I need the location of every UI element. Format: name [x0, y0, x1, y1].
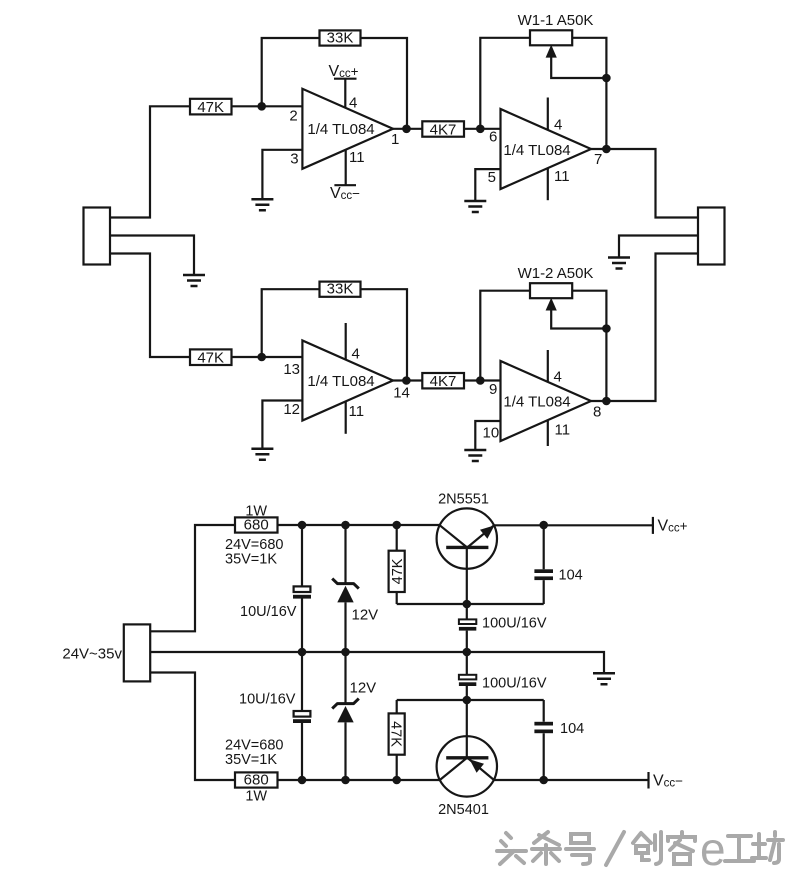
svg-text:1/4 TL084: 1/4 TL084 — [503, 394, 570, 411]
wire J3 mid pin ground rail — [150, 652, 604, 673]
svg-text:2N5551: 2N5551 — [438, 492, 489, 508]
svg-text:10U/16V: 10U/16V — [240, 604, 297, 620]
resistor R7 680 1W (positive rail) — [235, 517, 278, 534]
ground at J2 mid pin — [608, 258, 630, 269]
watermark slash — [606, 832, 624, 865]
capacitor C3 100U/16V upper — [459, 604, 476, 652]
connector J2 (right output jack) — [698, 208, 725, 265]
pin 4 stub U2B — [547, 350, 549, 382]
wire 4K7 to U1B pin6 — [464, 128, 501, 130]
zener D2 12V lower — [332, 652, 359, 780]
wire negative output rail — [494, 779, 648, 781]
wire base node line lower — [397, 699, 544, 701]
node output A — [402, 125, 411, 134]
svg-text:47K: 47K — [390, 558, 406, 584]
resistor R1 47K (channel A input) — [190, 99, 232, 116]
svg-text:9: 9 — [489, 381, 497, 398]
svg-text:4: 4 — [349, 95, 357, 112]
wire J2 pin mid to ground — [619, 236, 698, 258]
svg-text:7: 7 — [594, 151, 602, 168]
resistor R4 47K (channel B input) — [190, 349, 232, 366]
svg-text:47K: 47K — [388, 721, 404, 747]
watermark char hao — [566, 834, 594, 864]
node junction inverting input A — [257, 102, 266, 111]
svg-text:12: 12 — [283, 401, 300, 418]
svg-text:5: 5 — [488, 169, 496, 186]
op-amp U1A triangle 1/4 TL084 — [302, 89, 393, 169]
node wiper junction W1-1 — [602, 74, 611, 83]
watermark char fang — [752, 832, 783, 863]
Vcc+ supply symbol at U1A pin4 — [329, 63, 359, 108]
pin 11 stub U1B — [547, 168, 549, 200]
wire R4 to U2A pin13 — [232, 356, 303, 358]
node emitter Q2 output — [539, 776, 548, 785]
wire U2A output to 4K7 — [393, 379, 422, 381]
node wiper junction W1-2 — [602, 324, 611, 333]
terminal Vcc+ — [653, 517, 688, 535]
wire U2B pin10 to ground — [475, 421, 500, 450]
svg-text:10: 10 — [483, 425, 500, 442]
wire feedback up to 33K channel A — [262, 38, 320, 106]
op-amp U2B triangle 1/4 TL084 — [501, 361, 592, 441]
svg-text:11: 11 — [555, 422, 571, 439]
svg-text:2N5401: 2N5401 — [438, 802, 489, 818]
node base Q1 — [463, 600, 472, 609]
potentiometer W1-2 body — [530, 283, 572, 298]
svg-text:1/4 TL084: 1/4 TL084 — [503, 142, 570, 159]
terminal Vcc- — [649, 772, 684, 790]
pot W1-2 wiper arrow — [546, 298, 607, 329]
node junction inverting input U1B — [476, 125, 485, 134]
transistor Q1 2N5551 — [437, 508, 497, 604]
svg-text:2: 2 — [289, 108, 297, 125]
wire feedback up to pot W1-2 — [480, 291, 530, 381]
capacitor C2 104 upper — [534, 525, 553, 604]
wire 4K7 to U2B pin9 — [464, 379, 501, 381]
wire R1 to U1A pin2 — [232, 105, 303, 107]
svg-text:680: 680 — [244, 772, 269, 789]
node mid rail zener — [341, 648, 350, 657]
svg-text:47K: 47K — [197, 350, 224, 367]
svg-text:24V~35v: 24V~35v — [62, 646, 122, 663]
svg-text:4: 4 — [352, 346, 360, 363]
svg-text:104: 104 — [559, 568, 583, 584]
node mid rail 10U — [298, 648, 307, 657]
wire J3 top pin to R 680 upper — [150, 525, 235, 631]
svg-text:33K: 33K — [327, 29, 354, 46]
node zener upper tap — [341, 521, 350, 530]
svg-text:13: 13 — [283, 361, 300, 378]
svg-text:100U/16V: 100U/16V — [482, 616, 547, 632]
wire J1 pin top to R 47K channel A — [110, 106, 190, 217]
wire feedback up to pot W1-1 — [480, 38, 530, 129]
wire feedback up to 33K channel B — [262, 289, 320, 357]
svg-text:14: 14 — [393, 385, 410, 402]
op-amp U2A triangle 1/4 TL084 — [302, 341, 393, 421]
svg-text:11: 11 — [349, 149, 365, 166]
ground at mid rail — [593, 673, 615, 684]
wire 33K to output node A — [361, 38, 408, 129]
watermark char tou — [497, 833, 526, 864]
svg-text:11: 11 — [349, 403, 365, 420]
svg-text:1: 1 — [391, 131, 399, 148]
node 10U lower tap — [298, 776, 307, 785]
op-amp U1B triangle 1/4 TL084 — [501, 109, 592, 189]
svg-text:35V=1K: 35V=1K — [225, 752, 277, 768]
node emitter Q1 output — [539, 521, 548, 530]
resistor R3 4K7 (channel A coupling) — [422, 121, 464, 138]
svg-text:4K7: 4K7 — [430, 122, 457, 139]
node junction inverting input U2B — [476, 376, 485, 385]
capacitor C5 10U/16V lower — [293, 652, 311, 780]
svg-text:8: 8 — [593, 404, 601, 421]
resistor R2 33K (channel A feedback) — [320, 29, 361, 46]
resistor R8 47K upper (vertical) — [389, 525, 406, 604]
svg-text:1W: 1W — [245, 789, 267, 805]
connector J3 (power input) — [124, 624, 150, 681]
pin 4 stub U2A — [345, 323, 347, 360]
node zener lower tap — [341, 776, 350, 785]
watermark char chuang — [633, 832, 661, 864]
wire J3 bottom pin to R 680 lower — [150, 673, 235, 781]
pin 11 stub U2B — [547, 421, 549, 447]
potentiometer W1-1 body — [530, 30, 572, 45]
zener D1 12V upper — [332, 525, 359, 652]
watermark char tiao — [532, 832, 560, 864]
svg-text:W1-2 A50K: W1-2 A50K — [518, 265, 594, 282]
svg-text:12V: 12V — [352, 607, 379, 624]
svg-text:11: 11 — [554, 168, 570, 185]
wire positive output rail — [494, 524, 652, 526]
wire 33K to output node B — [361, 289, 408, 380]
svg-text:1/4 TL084: 1/4 TL084 — [307, 373, 374, 390]
wire pot W1-2 right side down to output node — [572, 291, 606, 401]
ground at J1 mid pin — [183, 275, 205, 286]
wire base node line upper — [397, 603, 544, 605]
node 47K lower tap — [392, 776, 401, 785]
node 10U upper tap — [298, 521, 307, 530]
svg-text:10U/16V: 10U/16V — [239, 692, 296, 708]
node junction inverting input B — [257, 353, 266, 362]
svg-text:1W: 1W — [245, 504, 267, 520]
capacitor C6 104 lower — [534, 700, 553, 780]
node output U1B — [602, 145, 611, 154]
capacitor C4 100U/16V lower — [459, 652, 476, 700]
watermark char gong — [725, 836, 754, 861]
svg-text:47K: 47K — [197, 99, 224, 116]
resistor R6 4K7 (channel B coupling) — [422, 373, 464, 390]
wire U1B output to connector J2 — [591, 149, 698, 218]
wire U1A output to 4K7 — [393, 128, 422, 130]
pot W1-1 wiper arrow — [546, 45, 607, 78]
svg-text:4: 4 — [554, 116, 562, 133]
svg-text:12V: 12V — [350, 680, 377, 697]
wire J1 pin mid to ground — [110, 236, 194, 276]
node mid rail 100U — [463, 648, 472, 657]
svg-text:104: 104 — [560, 721, 584, 737]
pin 4 stub U1B — [547, 98, 549, 131]
wire J1 pin bottom to R 47K channel B — [110, 254, 190, 358]
ground at U2A pin12 — [251, 449, 273, 460]
resistor R9 47K lower (vertical) — [388, 700, 405, 780]
wire pot W1-1 right side down to output node — [572, 38, 606, 149]
wire U2B output to connector J2 bottom pin — [591, 254, 698, 402]
svg-text:3: 3 — [290, 150, 298, 167]
svg-text:35V=1K: 35V=1K — [225, 552, 277, 568]
svg-text:W1-1 A50K: W1-1 A50K — [518, 12, 594, 29]
watermark char ke — [668, 832, 695, 864]
svg-text:4: 4 — [554, 369, 562, 386]
Vcc- supply symbol at U1A pin11 — [330, 150, 360, 202]
connector J1 (left input jack) — [84, 208, 111, 265]
node output U2B — [602, 397, 611, 406]
pin 11 stub U2A — [345, 402, 347, 434]
wire raw negative rail — [278, 779, 441, 781]
wire U2A pin12 to ground — [262, 401, 302, 449]
capacitor C1 10U/16V upper — [293, 525, 311, 652]
node output B — [402, 376, 411, 385]
ground at U1A pin3 — [251, 199, 273, 210]
wire U1A pin3 to ground — [262, 150, 302, 200]
svg-text:1/4 TL084: 1/4 TL084 — [307, 121, 374, 138]
transistor Q2 2N5401 — [437, 700, 497, 797]
ground at U2B pin10 — [464, 450, 486, 461]
svg-text:33K: 33K — [327, 281, 354, 298]
svg-text:4K7: 4K7 — [430, 373, 457, 390]
resistor R10 680 1W (negative rail) — [235, 772, 278, 789]
svg-text:100U/16V: 100U/16V — [482, 676, 547, 692]
node 47K upper tap — [392, 521, 401, 530]
svg-text:e: e — [700, 823, 726, 875]
wire raw positive rail — [278, 524, 441, 526]
node base Q2 — [463, 696, 472, 705]
wire U1B pin5 to ground — [475, 169, 500, 201]
resistor R5 33K (channel B feedback) — [320, 281, 361, 298]
ground at U1B pin5 — [464, 201, 486, 212]
svg-text:6: 6 — [489, 129, 497, 146]
